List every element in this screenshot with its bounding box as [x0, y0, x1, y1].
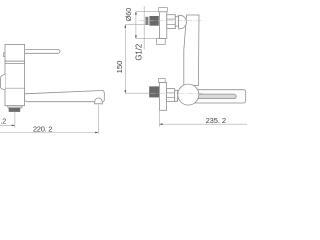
hex facet upper 2: [167, 23, 176, 25]
dim O60: extension top: [136, 10, 159, 12]
dark nub left of knurl: [145, 17, 148, 25]
vertical tube: [184, 15, 199, 86]
knurled nut upper: [149, 16, 158, 26]
svg-text:150: 150: [115, 61, 124, 74]
extension line 220.2: [97, 105, 99, 134]
hex facet upper 1: [167, 18, 176, 20]
thread piece below escutcheon: [157, 39, 166, 45]
collar upper: [175, 17, 178, 26]
collar lower: [175, 90, 178, 101]
arrow 220.2: [95, 132, 98, 134]
arrow 150 bottom: [124, 90, 126, 93]
lower centerline: [150, 92, 204, 94]
cartridge housing: [5, 44, 25, 61]
ring line 2: [5, 62, 25, 64]
body joint line: [5, 87, 25, 89]
aerator dome: [95, 98, 103, 104]
dim line O60: [135, 11, 137, 38]
under-body step: [8, 106, 23, 108]
escutcheon upper: [160, 12, 167, 39]
arrow .2: [12, 125, 15, 127]
hex facet lower 2: [167, 96, 175, 98]
arrow 150 top: [124, 25, 126, 28]
left bump (temperature ring): [0, 74, 5, 89]
arrow O60 top: [135, 11, 137, 14]
dim line 220.2: [0, 132, 98, 134]
svg-text:Ø60: Ø60: [124, 8, 133, 22]
extension line small dim: [14, 112, 16, 128]
under-body dark block: [9, 108, 21, 112]
arrow 235.2: [159, 123, 162, 125]
body column: [5, 61, 25, 105]
knurled nut lower: [149, 86, 159, 97]
wall line: [143, 6, 145, 50]
outer spout tube (side): [195, 90, 246, 103]
escutcheon lower cap: [159, 79, 166, 83]
dim line .2: [0, 124, 15, 126]
svg-text:G1/2: G1/2: [135, 44, 144, 61]
dim O60: extension bottom: [136, 38, 157, 40]
hex nut upper: [167, 15, 176, 29]
arrow O60 bottom: [135, 35, 137, 38]
dim line 150: [124, 25, 126, 94]
lever handle bar: [25, 49, 60, 53]
svg-text:235. 2: 235. 2: [206, 116, 226, 125]
escutcheon lower: [159, 83, 166, 111]
escutcheon top cap: [159, 8, 168, 12]
dim line 235.2: [159, 123, 247, 125]
extension line 235.2: [158, 111, 160, 127]
ball body: [178, 84, 199, 105]
extension line 150 bottom / lower centerline: [125, 92, 149, 94]
svg-text:220. 2: 220. 2: [33, 125, 53, 134]
elbow cap: [179, 15, 187, 28]
pivot tab: [3, 53, 5, 57]
hex facet lower 1: [167, 92, 175, 94]
hex nut lower: [167, 89, 175, 102]
svg-text:.2: .2: [0, 119, 6, 126]
inner spout tube (side): [195, 94, 236, 99]
spout (tapered): [25, 90, 105, 101]
upper centerline: [139, 20, 202, 22]
extension line 150 top: [125, 24, 149, 26]
